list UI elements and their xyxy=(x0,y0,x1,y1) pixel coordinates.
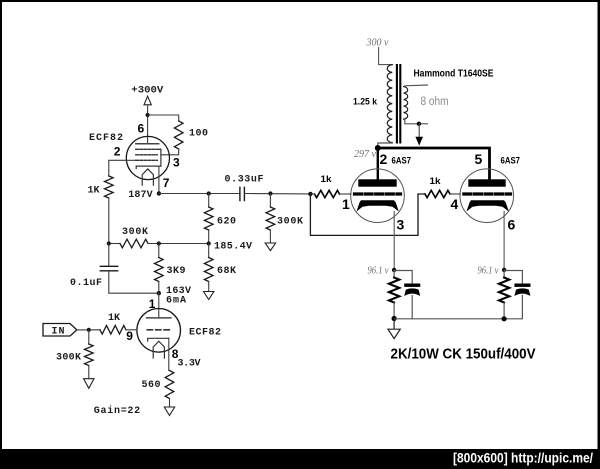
svg-text:Gain=22: Gain=22 xyxy=(94,405,141,417)
tubeA plate bar xyxy=(358,179,396,186)
tube1 heater xyxy=(142,169,153,185)
wire 163V node to pin1 xyxy=(158,293,160,318)
ground under 560 xyxy=(164,407,174,416)
wire secondary top terminal xyxy=(405,84,428,87)
wire plate bus thick xyxy=(378,148,490,179)
wire junction to output arrow xyxy=(418,124,420,137)
wire junction to cap A xyxy=(394,271,412,284)
node cathode B bottom junction xyxy=(502,316,507,321)
svg-text:2: 2 xyxy=(114,145,121,159)
svg-text:1k: 1k xyxy=(430,176,442,186)
power arrow +300V xyxy=(144,96,151,105)
svg-text:300 v: 300 v xyxy=(366,38,390,49)
svg-text:9: 9 xyxy=(126,329,133,343)
svg-text:3: 3 xyxy=(397,217,405,233)
svg-text:3K9: 3K9 xyxy=(167,266,186,277)
svg-text:6: 6 xyxy=(508,217,516,233)
node 300K left junction xyxy=(107,241,111,245)
tubeA grid dashes xyxy=(355,192,401,195)
wire RC bottom link xyxy=(394,318,504,320)
tube1 plate xyxy=(136,143,159,145)
transformer T1 core xyxy=(397,65,400,143)
tubeB cathode xyxy=(467,200,509,211)
ground under RC A xyxy=(388,319,400,339)
svg-text:6mA: 6mA xyxy=(166,295,186,306)
node IN junction xyxy=(87,328,91,332)
svg-text:560: 560 xyxy=(142,380,161,391)
transformer T1 secondary winding xyxy=(404,87,408,120)
wire 1k to pin1 xyxy=(340,193,352,195)
wire 1K to pin9 xyxy=(126,329,137,331)
wire junction to R100 top xyxy=(148,115,179,121)
node cathode A junction xyxy=(392,268,396,272)
wire pin2 grid to left rail xyxy=(109,160,136,176)
node 163V junction xyxy=(157,291,161,295)
resistor 1k grid stopper A xyxy=(315,190,340,197)
transformer T1 primary winding xyxy=(387,65,392,143)
tube2 plate xyxy=(147,317,171,319)
transistor Q1 6AS7 tube A envelope xyxy=(351,169,405,223)
wire pin2 plate drop thick xyxy=(377,148,379,180)
svg-text:6AS7: 6AS7 xyxy=(501,155,521,165)
capacitor 150uF B plate xyxy=(514,284,530,287)
svg-text:1K: 1K xyxy=(108,313,120,324)
node cathode B junction xyxy=(502,268,506,272)
tube2 cathode xyxy=(148,338,169,341)
wire 1k B to pin4 xyxy=(450,193,460,195)
svg-text:2K/10W CK 150uf/400V: 2K/10W CK 150uf/400V xyxy=(391,347,536,363)
resistor 300K grid leak xyxy=(269,194,271,208)
tube1 grid g1 row xyxy=(136,159,158,161)
wire pin8 cathode down to 560 xyxy=(168,338,170,370)
wire R100 bottom to pin3 xyxy=(161,149,179,155)
wire anode rail to coupling cap xyxy=(159,193,240,195)
node cathode A bottom junction xyxy=(392,316,397,321)
transistor Q2 6AS7 tube B envelope xyxy=(460,169,514,223)
ground under grid leak xyxy=(265,243,275,251)
svg-text:6AS7: 6AS7 xyxy=(392,155,412,165)
svg-text:96.1 v: 96.1 v xyxy=(478,265,499,276)
wire grid node to 1k A xyxy=(310,193,314,195)
op-amp U1 ECF82 upper tube envelope xyxy=(126,136,169,179)
tube2 heater xyxy=(153,341,164,358)
wire secondary bottom terminal xyxy=(405,120,428,124)
wire cap A bottom xyxy=(411,296,413,319)
node 297v junction dot xyxy=(375,145,381,151)
tube1 cathode xyxy=(136,166,161,168)
resistor 620 xyxy=(208,194,210,208)
wire cap to grid node xyxy=(244,193,310,195)
svg-text:IN: IN xyxy=(52,327,65,338)
svg-text:+300V: +300V xyxy=(131,85,163,96)
svg-text:300K: 300K xyxy=(122,227,148,238)
wire 1K bottom to 300K node xyxy=(108,198,110,244)
svg-text:300K: 300K xyxy=(277,216,303,227)
resistor 300K feedback horizontal xyxy=(109,243,120,245)
node 620 top junction xyxy=(207,191,211,195)
svg-text:187V: 187V xyxy=(128,190,153,201)
capacitor 0.1uF xyxy=(108,244,110,267)
svg-text:297 v: 297 v xyxy=(354,149,377,160)
svg-text:185.4V: 185.4V xyxy=(214,242,252,253)
op-amp U2 ECF82 lower tube envelope xyxy=(137,309,181,353)
resistor 1K upper xyxy=(105,176,114,198)
svg-text:68K: 68K xyxy=(217,266,236,277)
svg-text:3.3V: 3.3V xyxy=(178,359,201,370)
ground under input 300K xyxy=(84,379,94,389)
svg-text:300K: 300K xyxy=(56,352,81,363)
resistor 2K cathode B xyxy=(503,270,505,278)
wire IN to junction xyxy=(77,329,100,331)
svg-text:1K: 1K xyxy=(88,186,100,197)
svg-text:ECF82: ECF82 xyxy=(89,133,123,144)
resistor 560 xyxy=(165,371,174,399)
resistor 100 xyxy=(174,121,183,149)
node 300K grid-leak junction xyxy=(268,191,272,195)
tube1 g3-cathode tie xyxy=(160,149,162,166)
svg-text:5: 5 xyxy=(475,151,483,167)
wire pin6 into tube xyxy=(147,143,149,145)
svg-text:6: 6 xyxy=(138,122,145,136)
wire 300v to primary xyxy=(379,48,393,65)
tubeB grid dashes xyxy=(464,192,511,195)
resistor 2K cathode A xyxy=(393,270,395,278)
wire pin6 cathode down xyxy=(503,212,505,271)
svg-text:0.33uF: 0.33uF xyxy=(225,175,264,186)
svg-text:Hammond T1640SE: Hammond T1640SE xyxy=(414,68,494,80)
svg-text:7: 7 xyxy=(163,176,170,190)
svg-text:3: 3 xyxy=(173,156,180,170)
svg-text:620: 620 xyxy=(217,216,236,227)
tube1 grid g3 row xyxy=(136,148,161,150)
wire primary bottom to B+ node xyxy=(378,143,393,148)
node pin7 junction xyxy=(157,191,161,195)
svg-text:ECF82: ECF82 xyxy=(189,328,221,339)
resistor 1K grid stopper xyxy=(100,326,126,335)
svg-text:4: 4 xyxy=(451,196,459,212)
capacitor 0.33uF plates xyxy=(240,187,245,200)
node B+ junction dot xyxy=(146,113,150,117)
resistor 300K input xyxy=(88,330,90,344)
svg-text:8 ohm: 8 ohm xyxy=(421,96,449,108)
capacitor 150uF A curved plate xyxy=(404,288,420,296)
svg-text:1: 1 xyxy=(342,196,350,212)
svg-text:[800x600] http://upic.me/: [800x600] http://upic.me/ xyxy=(453,451,593,466)
wire cap B bottom xyxy=(504,296,522,319)
wire pin3 cathode down xyxy=(393,212,395,271)
tube1 grid g2 row xyxy=(136,154,158,156)
node grid feed junction xyxy=(308,192,312,196)
capacitor 150uF B curved plate xyxy=(514,288,530,296)
resistor 1k grid stopper B xyxy=(425,190,450,197)
svg-text:96.1 v: 96.1 v xyxy=(368,265,389,276)
ground under 68K xyxy=(204,292,214,300)
node secondary junction dot xyxy=(417,122,421,126)
output arrow to bus xyxy=(415,137,423,146)
tubeB plate bar xyxy=(468,179,505,186)
resistor 3K9 xyxy=(158,244,160,258)
node 185.4V junction xyxy=(207,241,211,245)
node 3K9 top junction xyxy=(157,241,161,245)
svg-text:2: 2 xyxy=(380,151,388,167)
tubeA cathode xyxy=(357,200,399,211)
terminal IN xyxy=(43,324,77,337)
wire arrow to junction xyxy=(147,105,149,144)
svg-text:100: 100 xyxy=(189,129,208,140)
wire grid feed to tube B xyxy=(310,194,425,236)
svg-text:1.25 k: 1.25 k xyxy=(353,96,378,107)
wire pin7 cathode down xyxy=(158,166,160,193)
wire junction to cap B xyxy=(504,271,522,284)
svg-text:1k: 1k xyxy=(321,174,333,184)
resistor 68K xyxy=(208,244,210,258)
tube2 grid row xyxy=(147,329,170,331)
svg-text:0.1uF: 0.1uF xyxy=(70,278,102,289)
capacitor 150uF A plate xyxy=(404,284,420,287)
